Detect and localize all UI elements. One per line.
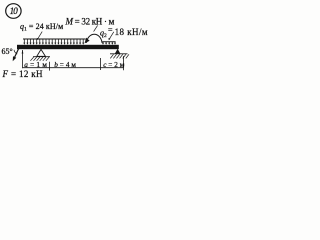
svg-text:65°: 65°	[2, 47, 13, 56]
q2 arrowheads	[102, 43, 116, 45]
force F arrow at 65 deg	[13, 46, 20, 61]
svg-text:b = 4 м: b = 4 м	[54, 61, 76, 69]
left support pin	[30, 49, 50, 60]
svg-text:F = 12 кН: F = 12 кН	[2, 69, 44, 79]
leader arrow q1	[37, 32, 42, 40]
extension line left end	[22, 50, 24, 68]
distributed load q1 band	[23, 39, 86, 43]
leader arrow q2	[108, 32, 113, 41]
distributed load q2 band	[102, 42, 115, 44]
svg-text:=: =	[108, 26, 113, 35]
svg-text:a = 1 м: a = 1 м	[24, 61, 47, 69]
leader line M	[94, 25, 98, 31]
angle arc 65	[14, 50, 17, 54]
q1 arrowheads	[23, 43, 84, 45]
svg-text:18 кН/м: 18 кН/м	[115, 27, 148, 37]
beam	[17, 45, 119, 49]
moment arc M	[85, 34, 102, 43]
right support roller	[110, 49, 129, 58]
problem number circle 10	[6, 4, 21, 19]
dimension line	[23, 67, 124, 69]
svg-text:10: 10	[10, 6, 19, 16]
extension line between b and c	[99, 58, 101, 70]
svg-text:c = 2 м: c = 2 м	[103, 61, 125, 69]
extension line right end	[123, 56, 125, 70]
tick between a and b	[49, 62, 51, 71]
